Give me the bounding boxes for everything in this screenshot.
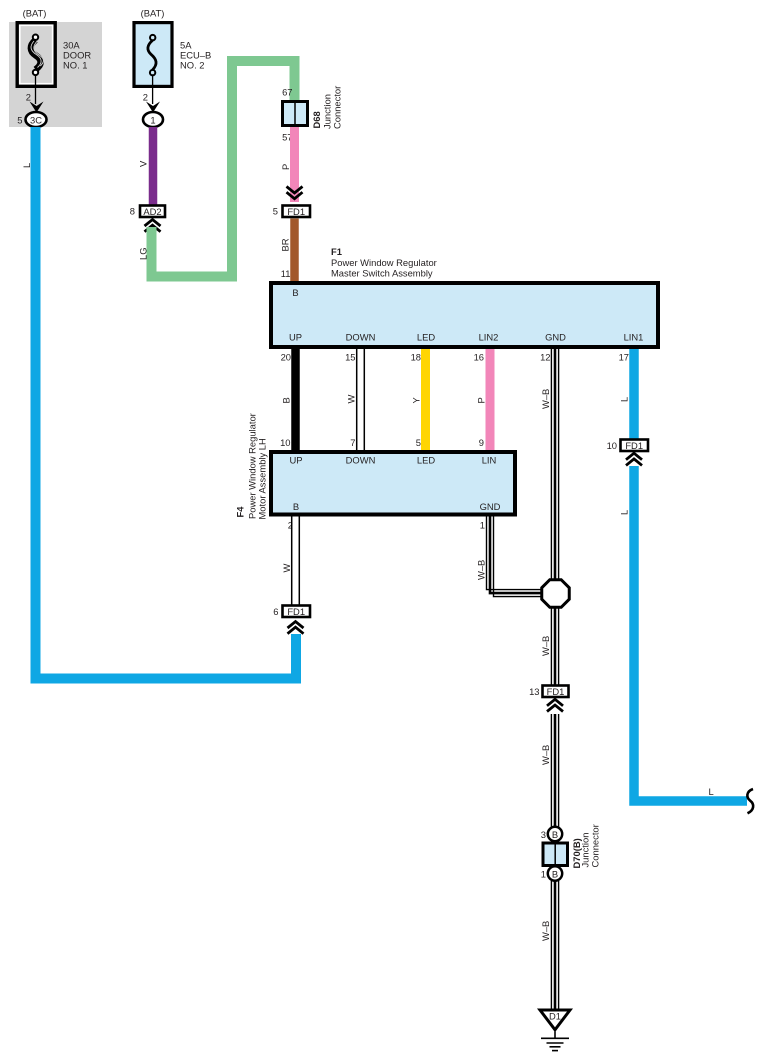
wire B (black) F1 pin20 to F4 pin10 [291,349,300,450]
svg-text:18: 18 [411,352,421,363]
svg-text:GND: GND [545,332,566,343]
svg-text:13: 13 [529,686,539,697]
svg-text:2: 2 [26,92,31,103]
wire W-B F1 pin12 down to junction [551,349,558,581]
svg-text:1: 1 [150,115,155,126]
wire L (blue) FD1-10 down and right to break [634,466,747,801]
wire LG (green) from AD2 down, right, up, right, down to D68 [152,61,295,277]
svg-text:AD2: AD2 [143,206,161,217]
wire Y (yellow) F1 pin18 to F4 pin5 [421,349,430,450]
svg-text:LIN: LIN [482,455,497,466]
ECU F4 Power Window Regulator Motor Assembly LH [271,452,515,515]
svg-text:9: 9 [479,437,484,448]
junction node (octagon) [542,580,570,608]
svg-text:NO. 1: NO. 1 [63,60,88,71]
svg-text:5: 5 [416,437,421,448]
svg-text:BR: BR [280,238,291,251]
svg-text:LED: LED [417,332,435,343]
connector FD1 (6) [283,606,311,618]
svg-text:P: P [280,164,291,170]
svg-text:10: 10 [607,440,617,451]
label F1 Power Window Regulator Master Switch Assembly [331,246,437,278]
svg-text:L: L [21,163,32,168]
svg-text:W: W [281,564,292,573]
svg-text:1: 1 [541,869,546,880]
arrow into connector 1 [146,102,160,113]
gray panel behind fuse 30A [9,22,102,127]
chevron below FD1-13 [547,699,563,711]
svg-text:8: 8 [130,206,135,217]
svg-text:20: 20 [281,352,291,363]
fuse 2 value label 5A ECU-B NO. 2 [180,40,211,71]
junction connector D68 [283,102,308,126]
svg-text:B: B [292,287,298,298]
svg-text:LIN1: LIN1 [624,332,644,343]
connector FD1 (13) [543,686,569,698]
svg-text:W–B: W–B [540,636,551,656]
ground point D1 [540,1010,570,1030]
wire W F4 pin2 to FD1-6 [292,516,300,605]
svg-text:W–B: W–B [540,921,551,941]
chevron into AD2 [145,220,161,232]
svg-text:7: 7 [350,437,355,448]
F4 bottom pin numbers [288,520,485,531]
wire L (blue) from 3C down, right, up to FD1-6 [36,127,297,679]
svg-text:W–B: W–B [540,389,551,409]
svg-text:V: V [138,160,149,167]
svg-text:F4: F4 [235,506,246,518]
svg-text:D68: D68 [311,111,322,128]
connector 1 [143,112,163,127]
svg-text:3: 3 [541,829,546,840]
F4 top terminal labels [289,455,496,466]
F1 bottom terminal labels [289,332,643,343]
chevron into FD1-5 [287,187,303,199]
svg-text:1: 1 [480,520,485,531]
wire break symbol [747,789,753,813]
fuse 5A ECU-B NO.2 body [134,23,172,87]
label F4 Power Window Regulator Motor Assembly LH [235,413,268,519]
wire W-B D70 pin1 to ground D1 [551,881,558,1009]
svg-text:11: 11 [281,268,291,279]
svg-text:17: 17 [619,352,629,363]
svg-text:12: 12 [540,352,550,363]
wire BR (brown) FD1 to F1 pin 11 [290,219,299,283]
svg-text:L: L [619,397,630,402]
arrow into 3C [30,102,44,113]
svg-text:B: B [293,501,299,512]
svg-text:5: 5 [17,115,22,126]
svg-text:3C: 3C [30,115,42,126]
wire W (white) F1 pin15 to F4 pin7 [357,349,365,450]
svg-text:Master Switch Assembly: Master Switch Assembly [331,267,433,278]
svg-text:B: B [281,397,292,403]
wire W-B F4 pin1 to junction node [487,516,543,597]
svg-text:B: B [552,829,558,840]
svg-text:W–B: W–B [540,745,551,765]
svg-text:Power Window Regulator: Power Window Regulator [331,257,437,268]
connector AD2 [140,206,165,218]
svg-text:(BAT): (BAT) [23,8,47,19]
ground symbol [541,1032,569,1051]
svg-text:GND: GND [480,501,501,512]
svg-text:UP: UP [289,332,302,343]
svg-text:P: P [476,397,487,403]
svg-text:Connector: Connector [590,824,601,867]
svg-text:F1: F1 [331,246,342,257]
svg-text:Connector: Connector [332,86,343,129]
svg-text:UP: UP [289,455,302,466]
svg-text:15: 15 [345,352,355,363]
F1 bottom pin numbers [281,352,629,363]
svg-text:FD1: FD1 [625,440,643,451]
svg-text:W–B: W–B [476,560,487,580]
svg-text:LED: LED [417,455,435,466]
junction connector D70(B) [543,843,568,866]
svg-text:L: L [709,786,714,797]
wire L (blue) F1 pin17 to FD1-10 [629,349,639,439]
svg-text:FD1: FD1 [287,606,305,617]
chevron below FD1-6 [288,622,304,634]
svg-text:Y: Y [411,397,422,404]
wire P (pink) D68 to FD1 [290,127,299,202]
wire W-B junction to FD1-13 [551,607,558,685]
svg-text:B: B [552,869,558,880]
svg-text:Motor Assembly LH: Motor Assembly LH [257,438,268,519]
fuse 30A DOOR NO.1 body [17,23,55,87]
svg-text:67: 67 [282,87,292,98]
connector 3C [26,112,47,127]
svg-text:6: 6 [273,606,278,617]
svg-text:5: 5 [273,206,278,217]
ECU F1 Power Window Regulator Master Switch Assembly [271,283,658,347]
connector FD1 (10) [621,440,649,452]
svg-text:FD1: FD1 [547,686,565,697]
svg-text:D1: D1 [549,1011,561,1022]
svg-text:16: 16 [474,352,484,363]
connector FD1 (5) [283,206,311,218]
node B (upper) [548,827,562,841]
svg-text:LIN2: LIN2 [479,332,499,343]
svg-text:L: L [619,510,630,515]
svg-text:DOWN: DOWN [346,332,376,343]
svg-text:(BAT): (BAT) [141,8,165,19]
node B (lower) [548,866,562,880]
svg-text:LG: LG [138,247,149,260]
svg-text:W: W [346,395,357,404]
svg-text:DOWN: DOWN [346,455,376,466]
svg-text:10: 10 [280,437,290,448]
svg-text:2: 2 [143,92,148,103]
wire V (violet) [149,127,158,205]
fuse 1 value label 30A DOOR NO. 1 [63,40,91,71]
wire W-B FD1-13 to D70 pin3 [551,714,558,827]
wire fuse2 to connector 1 [152,75,154,104]
svg-text:FD1: FD1 [287,206,305,217]
F4 top pin numbers [280,437,484,448]
svg-text:NO. 2: NO. 2 [180,60,205,71]
wire fuse1 to connector 3C [35,75,37,104]
F4 bottom terminal labels [293,501,501,512]
chevron below FD1-10 [626,453,642,465]
wire P (pink) F1 pin16 to F4 pin9 [486,349,495,450]
